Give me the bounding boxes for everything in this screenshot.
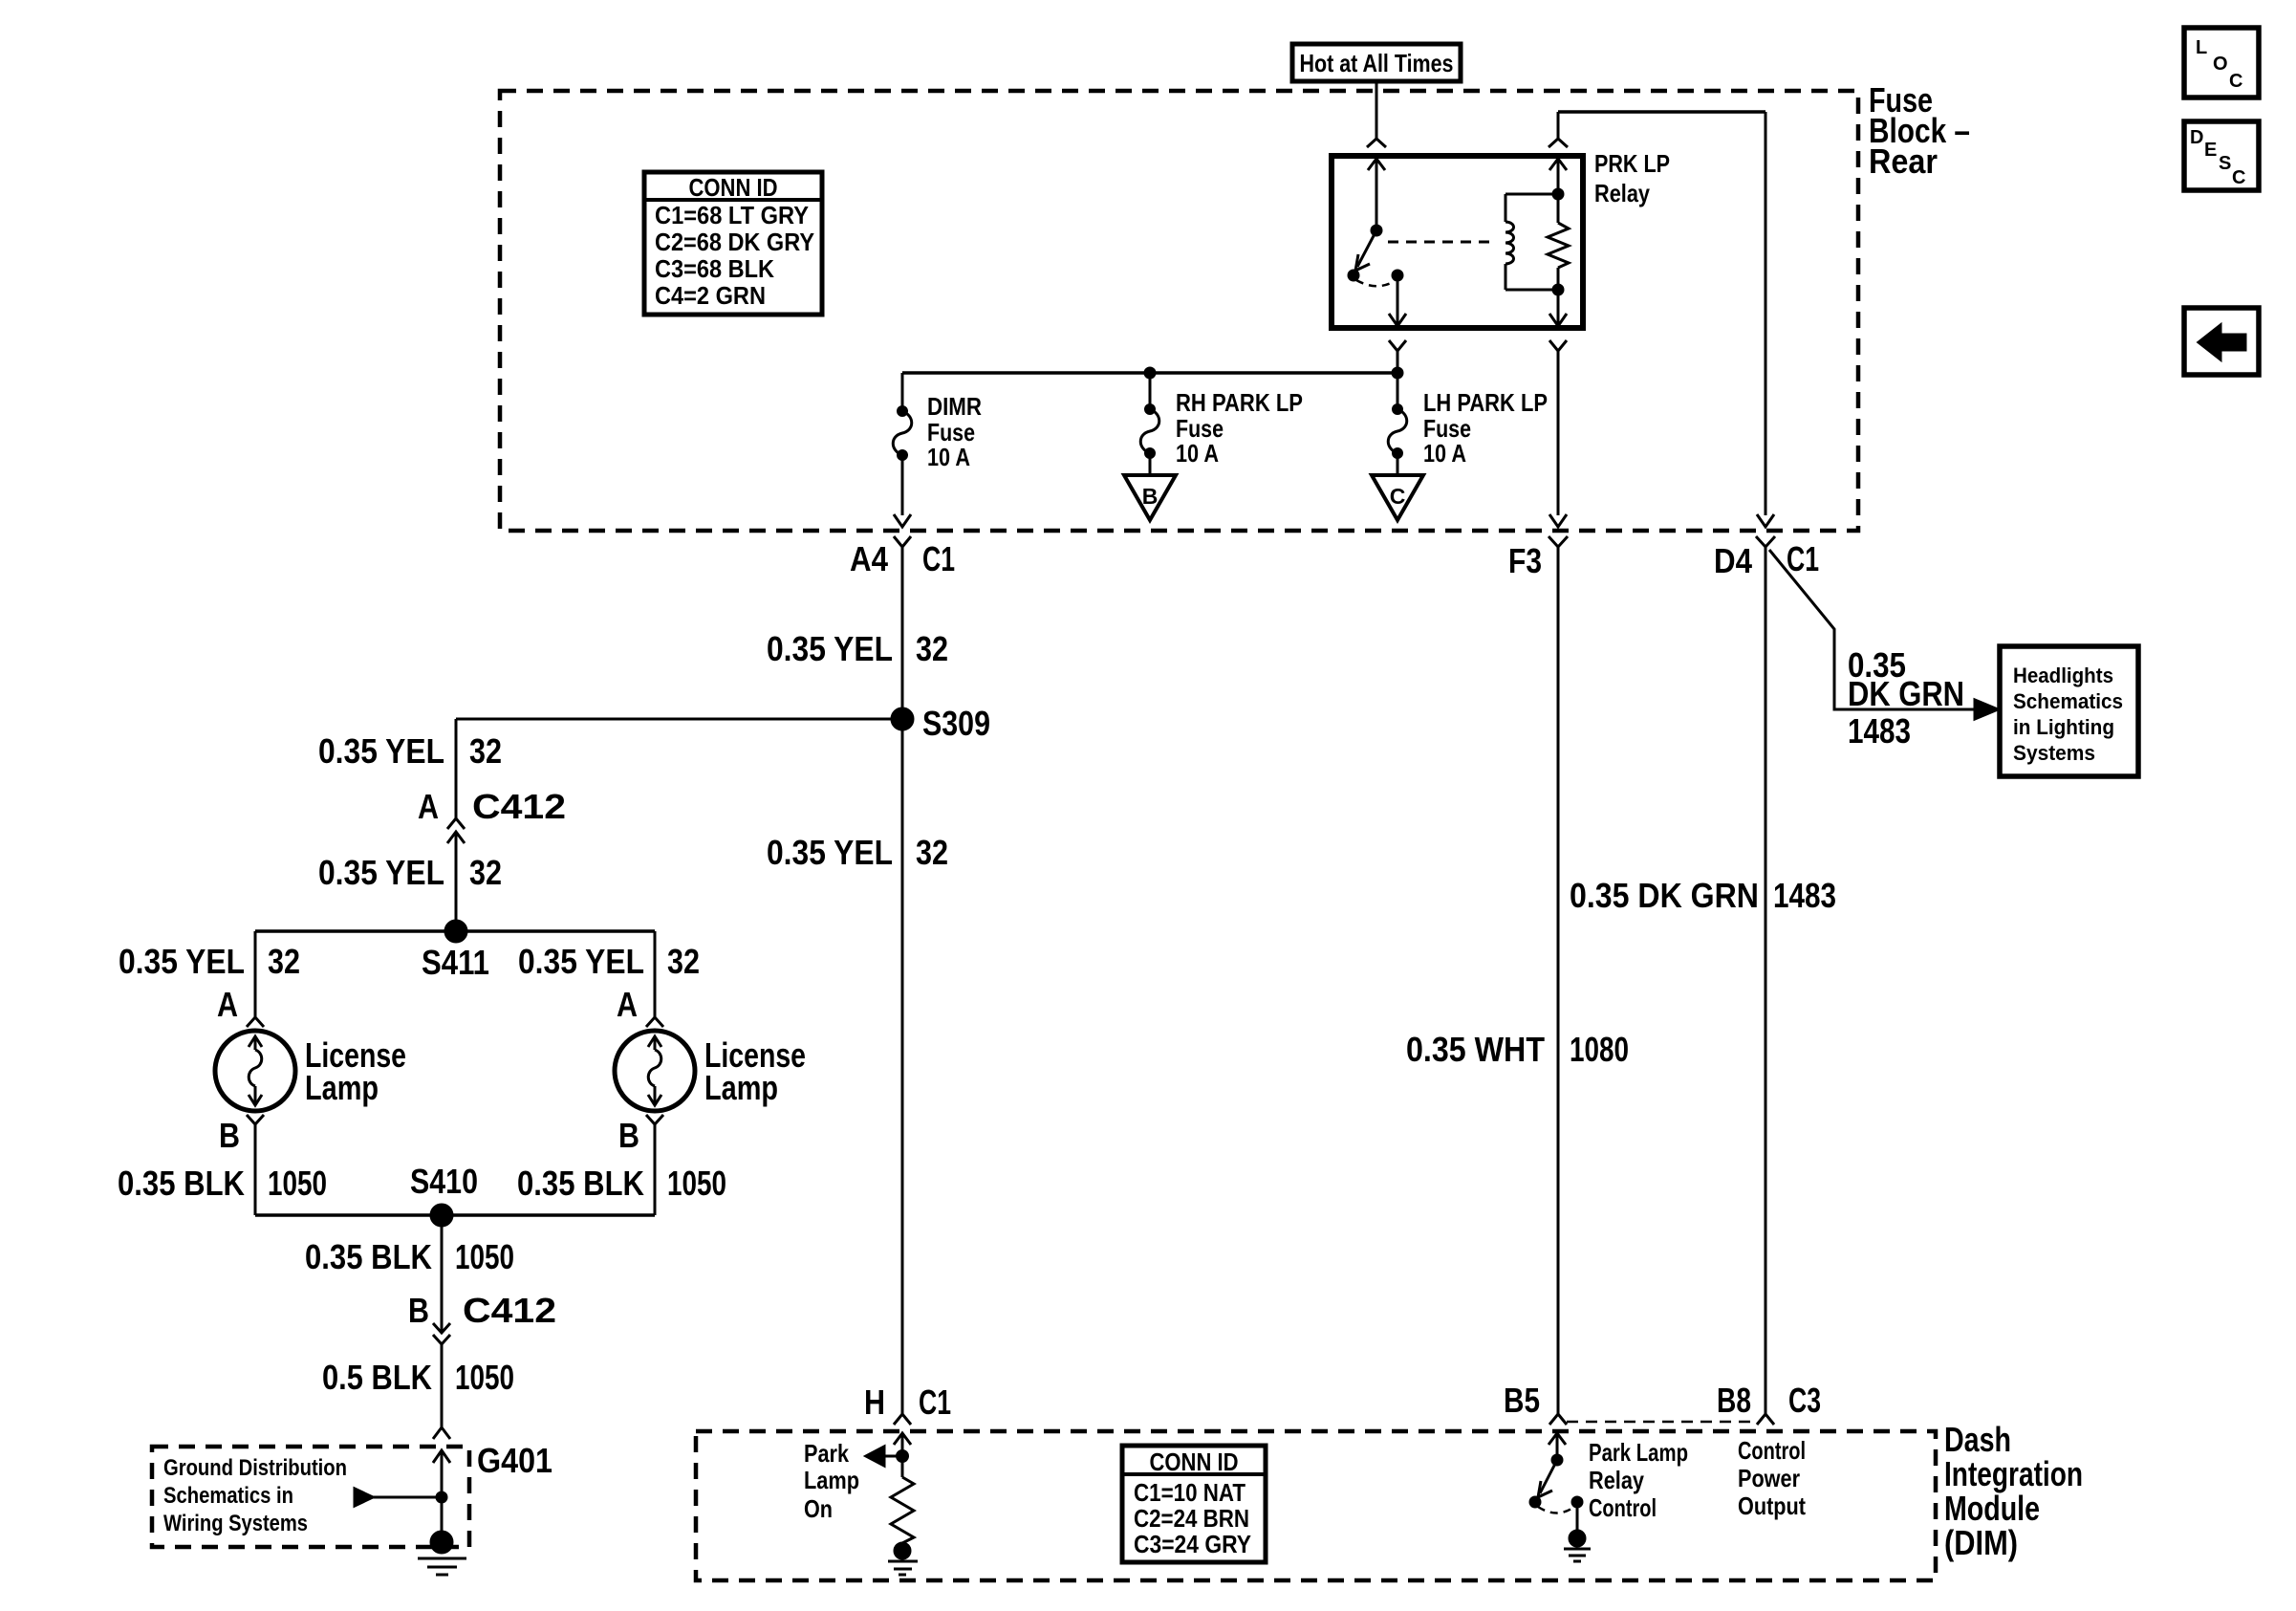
svg-text:Output: Output <box>1738 1491 1806 1520</box>
wire: 0.5 BLK 1050 to G401 <box>322 1344 514 1439</box>
svg-text:DIMR: DIMR <box>927 392 982 421</box>
svg-text:Wiring Systems: Wiring Systems <box>163 1511 308 1536</box>
relay control dashed link <box>1388 241 1489 244</box>
CONN ID table (Fuse Block) <box>644 172 822 315</box>
svg-text:Relay: Relay <box>1594 179 1650 207</box>
svg-text:C1=10 NAT: C1=10 NAT <box>1134 1478 1245 1507</box>
svg-text:C412: C412 <box>463 1291 556 1330</box>
relay switch common pin (top left) <box>1368 159 1385 235</box>
wire: F3 to DIM B5 (0.35 WHT 1080) <box>1406 547 1629 1414</box>
svg-text:Control: Control <box>1589 1493 1657 1522</box>
svg-text:(DIM): (DIM) <box>1944 1523 2018 1562</box>
svg-text:B: B <box>1142 484 1159 509</box>
svg-text:Control: Control <box>1738 1436 1806 1465</box>
connector pin H / C1 into DIM <box>864 1382 951 1425</box>
svg-text:RH PARK LP: RH PARK LP <box>1176 388 1303 417</box>
label: Fuse Block - Rear <box>1869 80 1970 181</box>
ground G401 box <box>152 1441 552 1547</box>
svg-text:0.35 YEL: 0.35 YEL <box>767 629 893 668</box>
DIM thin dashed connector row line <box>1567 1421 1757 1424</box>
svg-text:0.35 BLK: 0.35 BLK <box>305 1237 432 1276</box>
connector pin A4 / C1 exit of fuse block <box>850 536 955 578</box>
svg-text:Ground Distribution: Ground Distribution <box>163 1455 347 1481</box>
svg-text:O: O <box>2213 54 2228 75</box>
connector pin B5 into DIM <box>1504 1381 1567 1425</box>
Dash Integration Module dashed enclosure <box>696 1431 1936 1580</box>
connector C412 pin B <box>408 1291 556 1344</box>
svg-text:1050: 1050 <box>667 1164 726 1203</box>
svg-text:C2=24 BRN: C2=24 BRN <box>1134 1504 1249 1533</box>
svg-text:C1: C1 <box>922 539 955 578</box>
wire: relay switch output to fuse bus <box>1389 340 1406 378</box>
svg-text:1483: 1483 <box>1773 876 1836 915</box>
svg-text:C: C <box>2232 167 2245 188</box>
splice S309 <box>456 704 990 743</box>
svg-text:0.35 YEL: 0.35 YEL <box>318 731 444 771</box>
DIM switch ground <box>1564 1502 1591 1561</box>
svg-text:B8: B8 <box>1717 1381 1751 1420</box>
svg-text:On: On <box>804 1494 833 1523</box>
svg-text:B: B <box>408 1291 429 1330</box>
fuse F1: DIMR Fuse 10 A <box>893 373 982 527</box>
svg-text:D4: D4 <box>1714 541 1752 580</box>
svg-text:B5: B5 <box>1504 1381 1540 1420</box>
svg-text:A4: A4 <box>850 539 888 578</box>
back arrow box <box>2184 308 2259 375</box>
lamp: left License Lamp <box>215 1031 406 1111</box>
wire: S411 to left License Lamp <box>119 931 300 1027</box>
svg-text:1483: 1483 <box>1848 711 1911 751</box>
svg-text:Power: Power <box>1738 1464 1800 1492</box>
svg-text:Rear: Rear <box>1869 142 1938 181</box>
svg-text:Dash: Dash <box>1944 1420 2011 1459</box>
Hot at All Times box <box>1292 44 1461 81</box>
svg-text:Schematics in: Schematics in <box>163 1483 293 1509</box>
svg-text:32: 32 <box>916 629 948 668</box>
svg-text:10 A: 10 A <box>927 443 970 471</box>
svg-text:1050: 1050 <box>455 1358 514 1397</box>
connector pin B8 / C3 into DIM <box>1717 1381 1821 1520</box>
LOC box <box>2184 28 2259 98</box>
wire: S309 branch down to C412 pin A <box>318 719 502 818</box>
svg-text:C2=68 DK GRY: C2=68 DK GRY <box>655 228 814 256</box>
DIM internal resistor <box>888 1477 918 1575</box>
svg-text:C1=68 LT GRY: C1=68 LT GRY <box>655 201 809 229</box>
svg-text:Systems: Systems <box>2013 741 2095 765</box>
wire: S411 to right License Lamp <box>518 931 700 1027</box>
svg-text:C412: C412 <box>472 787 566 826</box>
Headlights Schematics box <box>2000 646 2138 776</box>
DESC box <box>2184 121 2259 190</box>
DIM park lamp output circuit <box>804 1433 911 1523</box>
svg-text:0.35 YEL: 0.35 YEL <box>518 942 644 981</box>
svg-text:C3: C3 <box>1788 1381 1821 1420</box>
wire: relay coil top to D4 feed <box>1549 112 1765 147</box>
splice S411 <box>255 921 655 982</box>
svg-text:0.35 BLK: 0.35 BLK <box>517 1164 644 1203</box>
svg-text:S: S <box>2219 153 2231 174</box>
wire: branch to Headlights Schematics (0.35 DK GRN 1483) <box>1769 550 1998 751</box>
wire: right lamp B to S410 <box>517 1115 726 1215</box>
svg-text:G401: G401 <box>477 1441 552 1480</box>
connector pin F3 exit of fuse block <box>1508 340 1568 580</box>
lamp: right License Lamp <box>615 1031 806 1111</box>
svg-text:B: B <box>219 1116 240 1155</box>
relay coil <box>1505 194 1558 290</box>
svg-text:0.5 BLK: 0.5 BLK <box>322 1358 432 1397</box>
svg-text:C1: C1 <box>1787 539 1819 578</box>
svg-text:PRK LP: PRK LP <box>1594 149 1670 178</box>
svg-text:Park Lamp: Park Lamp <box>1589 1438 1688 1467</box>
splice S410 <box>255 1162 655 1226</box>
svg-text:32: 32 <box>667 942 700 981</box>
svg-text:Relay: Relay <box>1589 1466 1644 1494</box>
svg-text:Hot at All Times: Hot at All Times <box>1300 49 1454 77</box>
svg-text:Integration: Integration <box>1944 1454 2083 1493</box>
connector pin D4 / C1 exit of fuse block <box>1714 112 1819 580</box>
svg-text:DK GRN: DK GRN <box>1848 674 1964 713</box>
wire: 0.35 YEL 32 (DIMR to S309) <box>767 547 948 1414</box>
svg-text:in Lighting: in Lighting <box>2013 715 2114 739</box>
svg-text:CONN ID: CONN ID <box>1150 1448 1239 1476</box>
svg-text:1080: 1080 <box>1570 1030 1629 1069</box>
svg-text:10 A: 10 A <box>1176 439 1219 468</box>
svg-text:32: 32 <box>469 853 502 892</box>
relay K: PRK LP Relay box <box>1332 149 1670 328</box>
svg-text:Park: Park <box>804 1439 849 1468</box>
label: Dash Integration Module (DIM) <box>1944 1420 2083 1562</box>
svg-text:32: 32 <box>268 942 300 981</box>
svg-text:C1: C1 <box>919 1382 951 1422</box>
svg-text:10 A: 10 A <box>1423 439 1466 468</box>
fuse F2: RH PARK LP Fuse 10 A <box>1140 368 1303 475</box>
svg-text:Lamp: Lamp <box>704 1068 778 1107</box>
svg-text:S410: S410 <box>410 1162 478 1201</box>
CONN ID table (DIM) <box>1122 1446 1266 1562</box>
svg-text:1050: 1050 <box>268 1164 327 1203</box>
svg-text:D: D <box>2190 127 2203 148</box>
svg-text:LH PARK LP: LH PARK LP <box>1423 388 1548 417</box>
svg-text:Schematics: Schematics <box>2013 689 2123 713</box>
svg-text:C: C <box>1390 484 1406 509</box>
svg-text:Module: Module <box>1944 1489 2040 1528</box>
svg-text:C: C <box>2229 71 2242 92</box>
relay switch NO contact <box>1356 271 1406 326</box>
svg-text:C3=68 BLK: C3=68 BLK <box>655 254 774 283</box>
svg-text:0.35 YEL: 0.35 YEL <box>318 853 444 892</box>
ground G401 symbol <box>355 1450 466 1575</box>
svg-text:A: A <box>217 985 238 1024</box>
svg-text:C3=24 GRY: C3=24 GRY <box>1134 1530 1251 1558</box>
svg-text:S309: S309 <box>922 704 990 743</box>
svg-text:0.35 DK GRN: 0.35 DK GRN <box>1570 876 1759 915</box>
svg-text:1050: 1050 <box>455 1237 514 1276</box>
wire: Hot at All Times feed down to relay <box>1367 81 1386 147</box>
svg-text:CONN ID: CONN ID <box>689 173 778 202</box>
wire: left lamp B to S410 <box>118 1115 327 1215</box>
svg-text:32: 32 <box>469 731 502 771</box>
svg-text:C4=2 GRN: C4=2 GRN <box>655 281 766 310</box>
wire label 0.35 YEL 32 below S309 <box>767 833 948 872</box>
DIM park lamp relay control switch <box>1530 1433 1688 1522</box>
svg-text:32: 32 <box>916 833 948 872</box>
svg-text:0.35 YEL: 0.35 YEL <box>767 833 893 872</box>
Fuse Block - Rear dashed enclosure <box>500 91 1858 531</box>
svg-text:A: A <box>617 985 638 1024</box>
wire: D4 to DIM B8 (0.35 DK GRN 1483) <box>1570 547 1836 1414</box>
wire: S410 to C412 pin B <box>305 1215 514 1333</box>
svg-text:L: L <box>2196 37 2207 58</box>
relay coil suppression resistor <box>1548 159 1569 326</box>
connector C412 pin A <box>418 787 566 843</box>
svg-text:E: E <box>2204 140 2217 161</box>
fuse F3: LH PARK LP Fuse 10 A <box>1388 373 1548 475</box>
wire: fuse feed bus <box>902 371 1397 375</box>
wire: C412-A to S411 <box>318 832 502 931</box>
svg-text:0.35 YEL: 0.35 YEL <box>119 942 245 981</box>
svg-text:0.35 BLK: 0.35 BLK <box>118 1164 245 1203</box>
off-page connector triangle B <box>1124 475 1176 520</box>
svg-text:A: A <box>418 787 439 826</box>
off-page connector triangle C <box>1372 475 1423 520</box>
svg-text:B: B <box>618 1116 639 1155</box>
svg-text:S411: S411 <box>422 943 489 982</box>
relay switch lever <box>1349 230 1376 280</box>
svg-text:Lamp: Lamp <box>305 1068 379 1107</box>
svg-text:0.35 WHT: 0.35 WHT <box>1406 1030 1545 1069</box>
svg-text:H: H <box>864 1382 885 1422</box>
svg-text:Lamp: Lamp <box>804 1466 859 1494</box>
svg-text:F3: F3 <box>1508 541 1542 580</box>
svg-text:Headlights: Headlights <box>2013 664 2113 687</box>
